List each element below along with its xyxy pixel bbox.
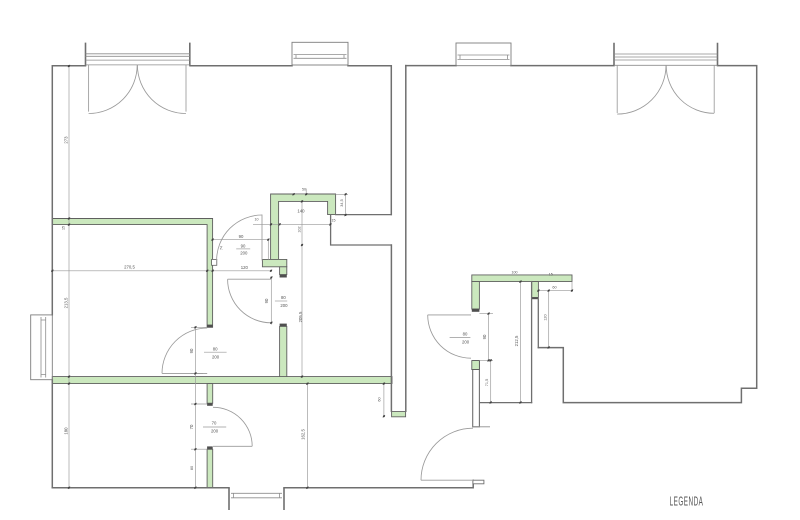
svg-text:LEGENDA: LEGENDA (670, 495, 704, 509)
svg-text:70: 70 (212, 421, 217, 426)
svg-text:80: 80 (213, 347, 218, 352)
svg-text:200: 200 (280, 303, 288, 308)
svg-text:90: 90 (239, 234, 244, 239)
svg-text:200: 200 (462, 340, 470, 345)
svg-text:71,5: 71,5 (485, 379, 489, 386)
svg-text:102: 102 (298, 226, 302, 232)
svg-text:90: 90 (241, 244, 246, 249)
svg-text:273: 273 (63, 136, 68, 144)
svg-text:213,5: 213,5 (63, 297, 68, 308)
svg-text:140: 140 (297, 209, 305, 214)
svg-text:50: 50 (302, 188, 306, 192)
svg-text:180: 180 (63, 427, 68, 435)
svg-text:270,5: 270,5 (124, 265, 135, 270)
svg-text:34,5: 34,5 (340, 199, 344, 206)
svg-text:205,5: 205,5 (298, 311, 303, 322)
svg-text:80: 80 (463, 332, 468, 337)
svg-text:60: 60 (378, 397, 382, 401)
svg-text:60: 60 (552, 286, 556, 290)
svg-text:162,5: 162,5 (301, 429, 306, 440)
svg-text:10: 10 (255, 218, 259, 222)
svg-text:74: 74 (220, 246, 224, 250)
svg-text:200: 200 (212, 354, 220, 359)
svg-text:90: 90 (189, 348, 194, 353)
svg-text:80: 80 (190, 466, 194, 470)
svg-text:120: 120 (544, 314, 548, 320)
svg-text:200: 200 (211, 428, 219, 433)
svg-text:80: 80 (281, 295, 286, 300)
svg-text:15: 15 (549, 273, 553, 277)
svg-text:120: 120 (241, 265, 249, 270)
svg-text:200: 200 (240, 251, 248, 256)
svg-text:15: 15 (62, 226, 66, 230)
svg-text:90: 90 (264, 298, 269, 303)
svg-text:15: 15 (332, 218, 336, 222)
svg-text:212,5: 212,5 (514, 335, 519, 346)
svg-text:90: 90 (482, 334, 487, 339)
svg-text:100: 100 (512, 271, 518, 275)
svg-text:70: 70 (189, 424, 194, 429)
